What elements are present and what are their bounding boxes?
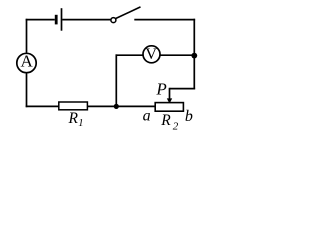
label R2 (160, 112, 179, 132)
wire: right vertical (top corner down to P-wire corner) (193, 19, 195, 90)
svg-text:b: b (185, 108, 193, 125)
svg-text:R: R (68, 110, 79, 127)
wire: bottom-left horizontal (corner to R1) (26, 105, 59, 107)
svg-text:1: 1 (78, 118, 83, 129)
label a (left terminal) (143, 108, 151, 125)
resistor R1 (59, 102, 88, 110)
junction node (right vertical / voltmeter) (191, 53, 197, 59)
wire: top-left horizontal (left corner to battery negative) (26, 19, 55, 21)
wire: V branch corner to voltmeter left (116, 54, 143, 56)
wire: left vertical lower (ammeter to bottom-left corner) (26, 73, 28, 107)
ammeter A (17, 52, 36, 73)
voltmeter V (143, 46, 160, 63)
wire: battery positive to switch (62, 19, 110, 21)
svg-text:a: a (143, 108, 151, 125)
svg-text:R: R (160, 112, 171, 129)
svg-text:V: V (145, 46, 157, 63)
label P (155, 79, 166, 98)
wire: P-wire (right vertical corner left to slider) (170, 88, 196, 90)
rheostat slider P (wiper arm with arrow) (167, 88, 172, 104)
rheostat R2 (resistor body) (155, 103, 183, 112)
svg-text:P: P (155, 79, 166, 98)
battery (55, 8, 62, 31)
switch S (open) (111, 7, 141, 23)
wire: R1 to R2 (through junction) (87, 105, 155, 107)
label b (right terminal) (185, 108, 193, 125)
wire: voltmeter branch vertical (bottom junction up to V wire) (115, 54, 117, 106)
wire: switch to top-right corner (134, 19, 195, 21)
wire: voltmeter right to junction on right vertical (160, 54, 194, 56)
svg-text:2: 2 (173, 121, 179, 133)
wire: left vertical upper (top corner down to ammeter) (26, 19, 28, 53)
svg-text:A: A (21, 52, 34, 71)
label R1 (68, 110, 84, 129)
junction node (bottom wire / voltmeter branch) (114, 104, 119, 109)
